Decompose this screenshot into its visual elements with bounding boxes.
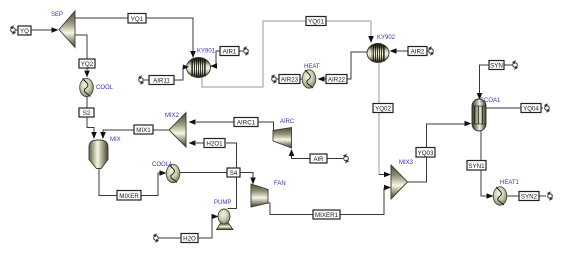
svg-text:SYN1: SYN1 xyxy=(468,163,485,170)
wire SYN2: HEAT1 to product xyxy=(507,195,546,197)
wire AIRC1: AIRC to MIX2 xyxy=(196,122,274,131)
stream label SYN2 xyxy=(519,192,539,201)
stream label AIR2 xyxy=(408,47,427,56)
stream label AIR1 xyxy=(220,47,239,56)
arrow S2 into MIX xyxy=(91,132,97,139)
svg-text:SYN2: SYN2 xyxy=(521,194,538,201)
svg-text:H2O1: H2O1 xyxy=(206,141,223,148)
heater HEAT xyxy=(302,70,316,88)
svg-text:SCOA1: SCOA1 xyxy=(480,98,501,104)
svg-text:AIRC1: AIRC1 xyxy=(237,120,256,127)
node AIR feed connector circle xyxy=(343,154,349,163)
wire S2: COOL to MIX xyxy=(87,97,94,133)
svg-text:MIX1: MIX1 xyxy=(136,127,151,134)
wire H2O1: PUMP to MIX2 xyxy=(226,143,237,209)
reactor KY901 xyxy=(187,56,211,79)
node AIR2 feed connector circle xyxy=(428,46,434,55)
fan AIRC xyxy=(273,128,292,149)
svg-text:YQ03: YQ03 xyxy=(418,150,434,157)
tank mixer MIX xyxy=(89,140,108,169)
stream label H2O xyxy=(181,234,198,243)
stream label S4 xyxy=(227,168,240,177)
stream label YQ xyxy=(18,26,31,35)
wire AIR: feed to AIRC xyxy=(292,154,344,159)
node YQ04 product connector circle xyxy=(544,103,550,112)
wire H2O: feed to PUMP xyxy=(159,217,213,239)
arrow AIR2 into KY902 xyxy=(390,48,397,54)
svg-text:YQ02: YQ02 xyxy=(375,106,391,113)
wire S4: COOL1 to FAN xyxy=(180,173,253,179)
svg-text:AIR23: AIR23 xyxy=(281,77,299,84)
arrow SYN1 into HEAT1 xyxy=(487,193,494,199)
wire AIR22: KY902 to HEAT xyxy=(322,52,368,79)
svg-text:S4: S4 xyxy=(230,170,238,177)
stream label S2 xyxy=(79,108,94,117)
stream label YQ2 xyxy=(79,59,95,68)
svg-text:YQ: YQ xyxy=(20,28,29,35)
svg-text:MIX: MIX xyxy=(110,137,121,143)
node SYN feed connector circle xyxy=(512,60,518,69)
arrow YQ03 into SCOA1 xyxy=(465,121,472,127)
stream label H2O1 xyxy=(204,139,225,148)
arrow S4 into FAN xyxy=(250,178,256,185)
svg-text:AIR22: AIR22 xyxy=(328,77,346,84)
mixer MIX3 xyxy=(391,165,408,199)
stream label AIRC1 xyxy=(234,118,258,127)
svg-text:SEP: SEP xyxy=(51,12,63,18)
wire YQ1: SEP to KY901 xyxy=(75,18,193,51)
stream label AIR22 xyxy=(326,75,347,84)
wire AIR23: HEAT to product xyxy=(277,78,302,80)
wire AIR1: feed to KY901 xyxy=(213,51,243,66)
wire SYN: feed to SCOA1 xyxy=(480,65,513,93)
arrow YQ01 into KY902 xyxy=(368,36,374,43)
svg-text:S2: S2 xyxy=(83,110,91,117)
arrow MIXER1 into MIX3 xyxy=(384,187,386,189)
arrow H2O1 into MIX2 xyxy=(189,140,196,146)
stream label YQ1 xyxy=(128,14,146,24)
wire YQ01: KY901 to KY902 (grey) xyxy=(202,21,371,87)
svg-text:AIRC: AIRC xyxy=(280,119,295,125)
wire YQ feed xyxy=(16,29,52,31)
arrow AIR into AIRC xyxy=(289,149,295,156)
svg-text:YQ2: YQ2 xyxy=(81,61,94,68)
svg-text:COOL1: COOL1 xyxy=(152,162,173,168)
arrow YQ1 into KY901 xyxy=(190,51,196,58)
stream label YQ01 xyxy=(306,17,326,26)
wire YQ02: KY902 to MIX3 (grey) xyxy=(378,62,380,175)
wire MIXER1: FAN to MIX3 xyxy=(268,188,384,215)
arrow SYN into SCOA1 xyxy=(477,93,483,100)
svg-text:YQ1: YQ1 xyxy=(131,16,144,23)
stream label MIX1 xyxy=(134,125,153,134)
node AIR1 feed connector circle xyxy=(243,46,249,55)
arrow MIX1 into MIX xyxy=(100,132,106,139)
wire MIX1: MIX2 to MIX xyxy=(103,130,169,132)
svg-text:MIX2: MIX2 xyxy=(165,113,180,119)
stream label SYN xyxy=(489,61,504,70)
reactor KY902 xyxy=(367,42,389,64)
separator SEP xyxy=(59,11,75,48)
heater HEAT1 xyxy=(493,187,507,205)
svg-text:HEAT1: HEAT1 xyxy=(500,180,520,186)
arrow YQ02 into MIX3 xyxy=(384,172,391,178)
cooler COOL xyxy=(80,78,94,96)
svg-text:KY901: KY901 xyxy=(197,49,216,55)
fan FAN xyxy=(251,184,268,207)
mixer MIX2 xyxy=(169,113,186,148)
stream label MIXER1 xyxy=(313,210,340,219)
reactor vessel SCOA1 xyxy=(472,98,486,132)
node H2O feed connector circle xyxy=(153,233,159,242)
arrow H2O into PUMP xyxy=(212,214,219,220)
node YQ feed connector circle xyxy=(10,25,16,34)
wire YQ03: MIX3 to SCOA1 xyxy=(408,124,466,182)
svg-text:AIR11: AIR11 xyxy=(153,78,170,85)
node AIR11 feed connector circle xyxy=(138,75,144,84)
svg-text:MIXER: MIXER xyxy=(119,193,139,200)
svg-text:H2O: H2O xyxy=(183,236,196,243)
stream label MIXER xyxy=(117,191,141,201)
node SYN2 product connector circle xyxy=(547,191,553,200)
arrow into SEP xyxy=(52,27,59,33)
arrow MIXER into COOL1 xyxy=(160,170,167,176)
svg-text:HEAT: HEAT xyxy=(304,64,320,70)
arrow AIR1 into KY901 xyxy=(210,63,217,69)
svg-text:AIR2: AIR2 xyxy=(411,49,425,56)
pump PUMP xyxy=(217,209,234,230)
stream label YQ03 xyxy=(416,148,435,158)
svg-text:MIX3: MIX3 xyxy=(399,160,414,166)
svg-text:AIR1: AIR1 xyxy=(223,49,237,56)
arrow YQ2 into COOL xyxy=(84,71,90,78)
svg-text:COOL: COOL xyxy=(96,85,114,91)
svg-text:KY902: KY902 xyxy=(377,35,396,41)
arrow AIR22 into HEAT xyxy=(318,76,325,82)
stream label AIR23 xyxy=(279,75,300,84)
svg-text:FAN: FAN xyxy=(274,181,286,187)
arrow AIRC1 into MIX2 xyxy=(189,119,196,125)
svg-text:AIR: AIR xyxy=(313,156,324,163)
svg-text:SYN: SYN xyxy=(490,63,503,70)
wire SYN1: SCOA1 to HEAT1 xyxy=(481,131,488,196)
arrow AIR11 into KY901 xyxy=(183,65,189,70)
svg-text:YQ04: YQ04 xyxy=(523,106,539,113)
stream label AIR xyxy=(310,154,327,163)
wire YQ04: SCOA1 to product xyxy=(486,107,543,109)
svg-text:YQ01: YQ01 xyxy=(308,19,324,26)
wire YQ2: SEP to COOL xyxy=(75,35,87,70)
cooler COOL1 xyxy=(166,164,180,182)
node AIR23 product connector circle xyxy=(271,74,277,83)
wire MIXER: MIX to COOL1 xyxy=(99,169,161,196)
wire AIR11: feed to KY901 xyxy=(144,67,185,80)
stream label YQ04 xyxy=(521,104,541,113)
svg-text:PUMP: PUMP xyxy=(214,200,231,206)
stream label SYN1 xyxy=(467,161,486,171)
stream label YQ02 xyxy=(373,104,393,113)
stream label AIR11 xyxy=(149,76,174,85)
svg-text:MIXER1: MIXER1 xyxy=(315,212,339,219)
wire AIR2: feed to KY902 xyxy=(392,50,428,52)
